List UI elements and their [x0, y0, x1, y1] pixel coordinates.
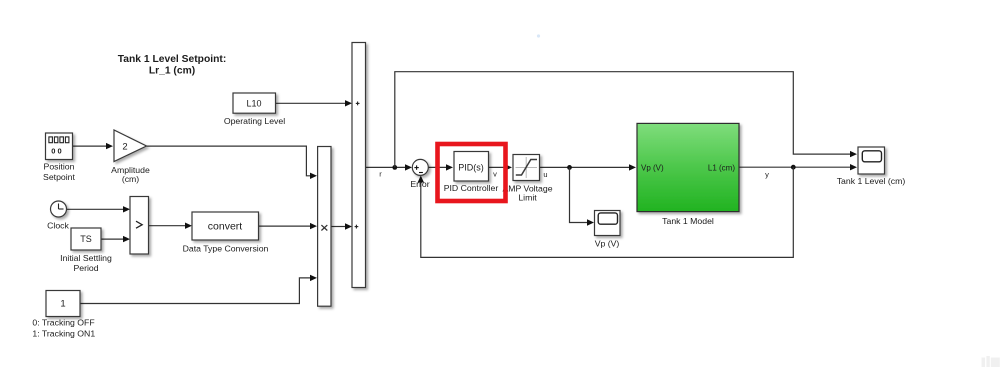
svg-text:(cm): (cm): [122, 174, 139, 184]
svg-text:Tank 1 Level Setpoint:: Tank 1 Level Setpoint:: [118, 54, 227, 65]
wire PID Controller to AMP Voltage Limit: [489, 164, 513, 170]
block PID Controller PID(s): [454, 152, 489, 182]
svg-text:Limit: Limit: [518, 193, 537, 203]
wire Vp branch to Vp scope: [570, 167, 595, 225]
clock Clock: [51, 201, 67, 217]
svg-text:y: y: [765, 170, 769, 179]
block Position Setpoint: [46, 133, 73, 160]
block AMP Voltage Limit saturation: [513, 155, 540, 181]
scope Vp (V): [595, 211, 621, 236]
wire Relational to Data Type Conversion: [149, 223, 193, 229]
wire Amplitude gain to Product in1: [147, 146, 318, 179]
wire Tank 1 Model to Tank 1 Level scope in2: [739, 164, 857, 170]
svg-text:Clock: Clock: [47, 221, 69, 231]
svg-text:Setpoint: Setpoint: [43, 172, 75, 182]
svg-text:Tank 1 Level (cm): Tank 1 Level (cm): [837, 176, 906, 186]
block Relational Operator: [130, 197, 149, 255]
title Tank 1 Level Setpoint: [118, 54, 227, 77]
block L10 Operating Level: [233, 93, 276, 113]
wire Constant 1 to Product in3: [80, 275, 317, 304]
wire Position Setpoint to Amplitude gain: [73, 143, 114, 149]
wire TS to Relational in2: [101, 236, 130, 242]
wire y feedback to Error sum minus input: [418, 167, 794, 257]
decorative faint blue dot: [537, 34, 540, 37]
wire AMP Voltage Limit to Tank 1 Model: [540, 164, 637, 170]
svg-text:Operating Level: Operating Level: [224, 116, 285, 126]
highlight red box around PID Controller: [438, 144, 506, 201]
junction node r: [392, 165, 397, 170]
svg-text:r: r: [379, 170, 382, 179]
svg-text:Error: Error: [410, 179, 429, 189]
svg-text:Data Type Conversion: Data Type Conversion: [183, 244, 269, 254]
block Tank 1 Model: [637, 123, 739, 211]
svg-text:0 0: 0 0: [51, 147, 61, 156]
svg-text:1: Tracking ON1: 1: Tracking ON1: [32, 329, 95, 339]
svg-text:u: u: [543, 170, 547, 179]
block TS Initial Settling Period: [71, 228, 101, 250]
block Constant 1 Tracking: [46, 291, 80, 317]
gain Amplitude (cm): [114, 130, 147, 162]
svg-text:Period: Period: [73, 263, 98, 273]
svg-text:v: v: [493, 170, 497, 179]
svg-text:L1 (cm): L1 (cm): [708, 164, 735, 173]
svg-text:Vp (V): Vp (V): [641, 164, 664, 173]
junction node Vp: [567, 165, 572, 170]
svg-text:Position: Position: [44, 162, 75, 172]
wire Error to PID Controller: [428, 164, 453, 170]
block convert Data Type Conversion: [192, 212, 259, 240]
junction node y: [791, 165, 796, 170]
wire Product to Sum in2: [331, 223, 352, 229]
svg-text:Tank 1 Model: Tank 1 Model: [662, 216, 714, 226]
svg-text:PID(s): PID(s): [458, 163, 484, 173]
wire Clock to Relational in1: [67, 206, 131, 212]
decorative watermark bottom right: [982, 356, 1000, 367]
sum Error: [412, 159, 428, 175]
svg-text:Lr_1 (cm): Lr_1 (cm): [149, 66, 195, 77]
svg-text:L10: L10: [246, 99, 261, 109]
block Sum: [352, 43, 366, 288]
svg-text:Vp (V): Vp (V): [595, 239, 620, 249]
wire Data Type Conversion to Product in2: [259, 223, 318, 229]
scope Tank 1 Level (cm): [858, 147, 885, 174]
svg-text:TS: TS: [80, 234, 92, 244]
svg-text:Initial Settling: Initial Settling: [60, 253, 112, 263]
wire L10 to Sum in1: [276, 100, 353, 106]
svg-text:convert: convert: [208, 221, 243, 233]
svg-text:2: 2: [122, 142, 127, 153]
svg-text:PID Controller: PID Controller: [444, 183, 499, 193]
wire r branch to Tank 1 Level scope in1: [395, 72, 857, 168]
svg-text:1: 1: [60, 299, 65, 310]
svg-text:0: Tracking OFF: 0: Tracking OFF: [32, 318, 94, 328]
wire Sum to Error sum: [366, 164, 412, 170]
block Product: [318, 147, 331, 307]
